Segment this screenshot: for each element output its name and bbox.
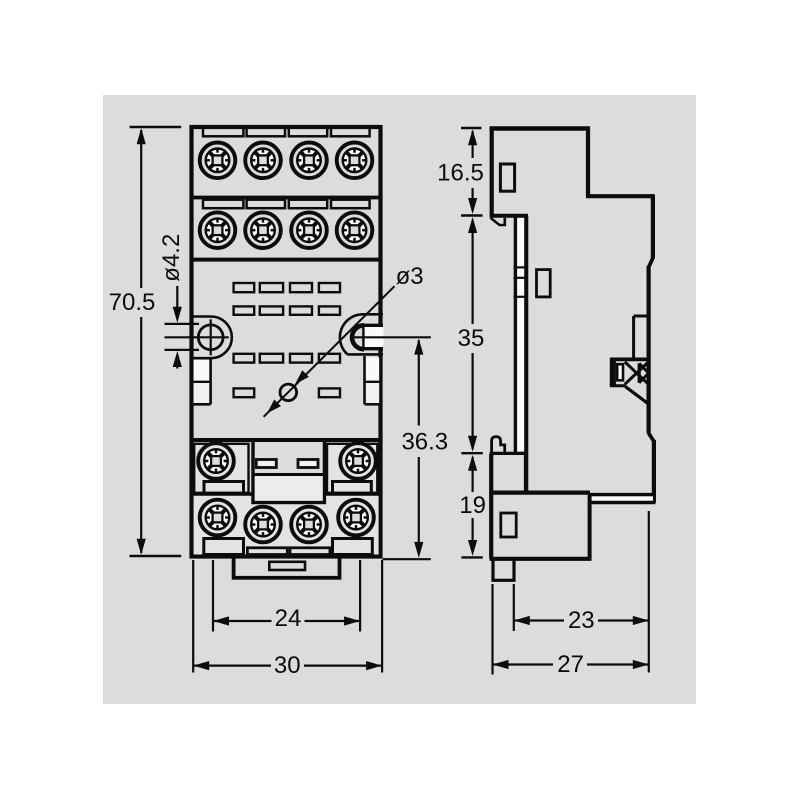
dim 16.5 line [472, 131, 474, 158]
dim 70.5 line [140, 130, 142, 288]
bottom extension lines [192, 560, 194, 673]
divider in lower block [192, 492, 254, 496]
screw row 1 [200, 143, 236, 179]
lower center block [253, 440, 324, 503]
top-left slot [500, 164, 514, 191]
svg-text:ø3: ø3 [396, 263, 424, 290]
dim o3 leader [264, 286, 395, 417]
dim 36.3 bottom tick [383, 558, 431, 560]
dim o4.2 ticks [165, 323, 200, 325]
top terminal slots [203, 127, 243, 136]
channel wall B [524, 216, 528, 492]
right edge upper [651, 194, 655, 258]
svg-text:19: 19 [459, 492, 486, 519]
left boss bottom line [192, 357, 212, 360]
side bottom extension lines [491, 584, 493, 675]
side view upper left edge [490, 127, 494, 216]
svg-text:70.5: 70.5 [109, 289, 156, 316]
section line under row2 [192, 258, 381, 262]
dim 36.3 tick (through hole center) [353, 336, 431, 338]
dim 36.3 line [418, 340, 420, 426]
right edge middle [646, 266, 650, 434]
tick 16.5/35 [461, 214, 483, 216]
svg-text:23: 23 [568, 607, 595, 634]
middle slot [537, 270, 551, 297]
left corner chamfer detail [491, 218, 505, 225]
right edge chamfer 1 [649, 258, 653, 268]
step down from top [586, 127, 590, 197]
vent slots row B [234, 306, 255, 314]
channel gap white [517, 218, 524, 451]
right boss outer arc [340, 314, 363, 354]
right notch bottom line [362, 347, 384, 350]
hook base line [490, 452, 528, 455]
ledge pair bottom line [588, 501, 656, 505]
side view top edge [490, 126, 590, 130]
left hole circle [198, 325, 223, 350]
dim 70.5 bottom tick [130, 555, 182, 557]
vent slots row A [234, 283, 255, 292]
lower left edge [489, 454, 493, 559]
inner step to clip [634, 315, 649, 318]
clip diagonal [625, 387, 648, 404]
svg-text:30: 30 [274, 652, 301, 679]
left hole crosshair [210, 319, 212, 355]
svg-text:35: 35 [458, 325, 485, 352]
dim 30 line [193, 664, 271, 666]
row2 terminal slots [203, 200, 243, 209]
right notch left wall [362, 326, 364, 348]
side view upper bottom-left line [490, 214, 528, 218]
drop from ledge [588, 494, 592, 559]
screw row 2 [200, 212, 236, 248]
right edge chamfer 2 [649, 433, 654, 441]
vent slots row D [234, 388, 255, 397]
right boss top line [363, 313, 384, 316]
section line above lower block [192, 438, 381, 442]
right boss bottom line [348, 353, 384, 356]
left boss top line [192, 315, 212, 318]
dim 23 line [514, 619, 564, 621]
svg-text:27: 27 [557, 651, 584, 678]
wall tick marks [514, 266, 529, 268]
dim 19 line [472, 457, 474, 492]
dim 70.5 top tick [130, 126, 182, 128]
dim 70.5 arrows [137, 128, 146, 144]
svg-text:16.5: 16.5 [437, 160, 484, 187]
divider row1/row2 [192, 196, 381, 200]
left strip white cells [194, 360, 210, 381]
clip triangles [625, 362, 649, 384]
right notch white opening [363, 327, 384, 348]
dim 36.3 arrows [414, 339, 423, 355]
right hole half circle [352, 325, 364, 349]
side bottom line [490, 557, 592, 561]
ledge pair right white gap [590, 496, 653, 500]
right strip white cells [366, 358, 380, 382]
left strip outline [209, 358, 212, 404]
vent slots row C [234, 354, 255, 363]
ledge pair top line [588, 493, 656, 496]
row3 pockets [204, 482, 244, 494]
front view body outline [192, 127, 381, 557]
svg-text:36.3: 36.3 [401, 429, 448, 456]
channel ledge [491, 491, 590, 495]
svg-text:24: 24 [275, 605, 302, 632]
right edge lower [652, 440, 656, 503]
right notch top line [361, 324, 383, 327]
clip white window [617, 364, 623, 380]
clip box bottom [610, 384, 626, 387]
tick 35/19 [461, 452, 482, 454]
channel wall A [514, 216, 517, 453]
row4 pockets [204, 539, 244, 555]
row4 light strip [194, 496, 251, 555]
row3 screw cells [194, 444, 248, 493]
side foot [493, 559, 514, 581]
bottom-left slot [501, 513, 516, 537]
small hole o3 [280, 384, 297, 401]
screw row 4 [200, 500, 236, 536]
right strip outline [363, 356, 366, 404]
svg-text:ø4.2: ø4.2 [158, 234, 185, 282]
mounting foot [234, 557, 340, 578]
screw row 3 [198, 443, 234, 479]
dim o4.2 line and arrows [176, 286, 178, 309]
clip black bar [610, 358, 616, 386]
tick bottom (19) [461, 556, 482, 558]
left boss arc [211, 317, 232, 359]
dim 24 line [213, 620, 272, 622]
bottom hook stub [492, 437, 505, 454]
gray drawing area [103, 95, 696, 704]
tick top (16.5) [461, 127, 482, 129]
clip box top [610, 357, 648, 361]
dim 27 line [493, 663, 554, 665]
dim 35 line [472, 220, 474, 324]
